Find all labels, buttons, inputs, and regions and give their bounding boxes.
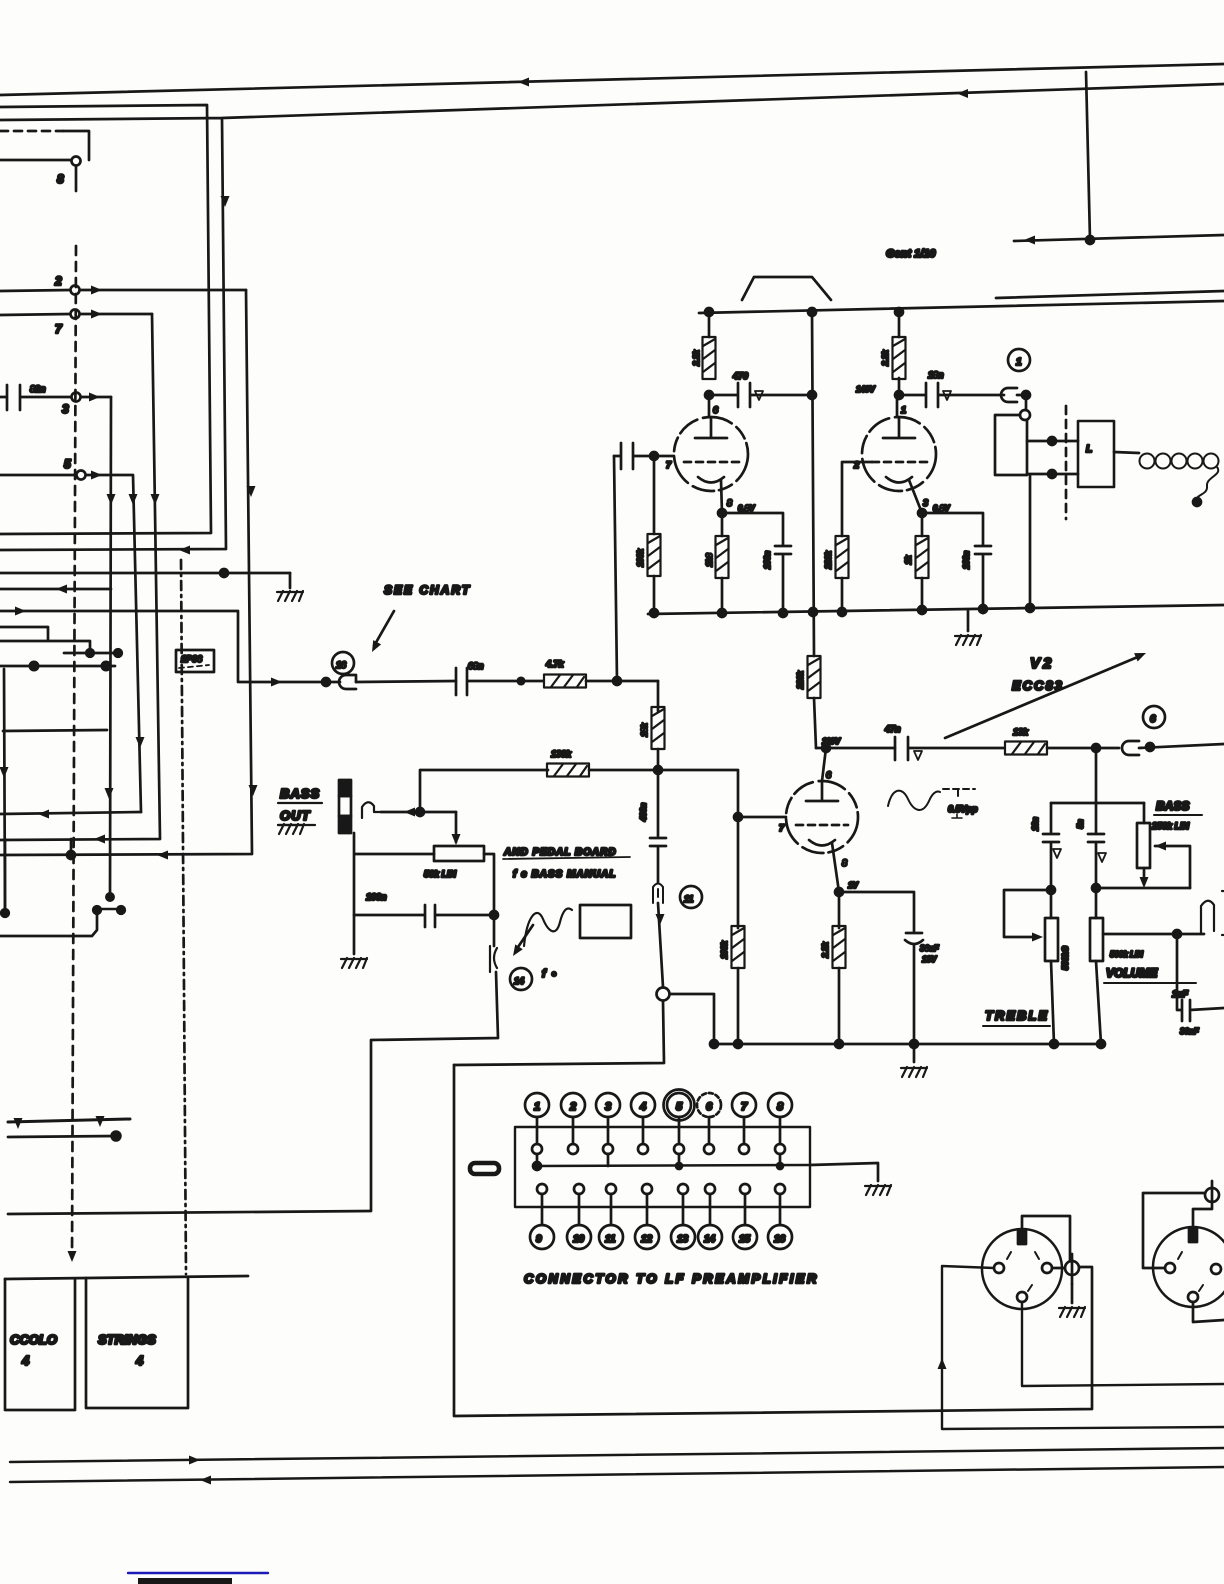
svg-text:12: 12: [641, 1234, 653, 1245]
svg-text:7: 7: [741, 1101, 748, 1113]
svg-text:18n: 18n: [928, 370, 944, 380]
svg-text:AND PEDAL BOARD: AND PEDAL BOARD: [503, 847, 617, 858]
svg-text:13V: 13V: [922, 955, 937, 964]
svg-text:SEE CHART: SEE CHART: [384, 583, 471, 597]
svg-text:100k: 100k: [636, 549, 645, 567]
svg-text:140V: 140V: [856, 385, 875, 394]
svg-text:36uF: 36uF: [920, 944, 940, 953]
svg-text:6: 6: [706, 1101, 713, 1113]
svg-text:BASS: BASS: [280, 786, 320, 801]
svg-text:8: 8: [842, 858, 847, 868]
svg-text:BASS: BASS: [1156, 799, 1189, 813]
svg-text:TREBLE: TREBLE: [985, 1008, 1049, 1023]
svg-text:1V: 1V: [848, 881, 858, 890]
svg-text:4: 4: [135, 1353, 144, 1368]
svg-text:13: 13: [677, 1234, 689, 1245]
svg-text:430n: 430n: [639, 803, 648, 822]
svg-text:6: 6: [1150, 714, 1156, 725]
svg-text:f c BASS MANUAL: f c BASS MANUAL: [513, 869, 616, 880]
svg-text:8: 8: [777, 1101, 784, 1113]
svg-text:7: 7: [55, 322, 63, 336]
svg-text:VOLUME: VOLUME: [1106, 966, 1158, 980]
svg-text:1P06: 1P06: [181, 654, 203, 664]
svg-text:220k: 220k: [824, 551, 833, 570]
svg-text:2.2k: 2.2k: [881, 350, 890, 367]
svg-text:1: 1: [1016, 357, 1022, 368]
svg-text:220k: 220k: [796, 671, 805, 690]
svg-text:4: 4: [639, 1101, 646, 1113]
svg-text:50k LIN: 50k LIN: [424, 869, 457, 879]
svg-text:8: 8: [57, 172, 64, 186]
svg-text:2: 2: [569, 1101, 576, 1113]
svg-text:STRINGS: STRINGS: [98, 1332, 156, 1347]
svg-text:3: 3: [923, 498, 928, 508]
svg-text:18k: 18k: [640, 723, 649, 737]
svg-text:30nF: 30nF: [1180, 1027, 1200, 1036]
svg-text:1: 1: [534, 1101, 540, 1113]
svg-text:CONNECTOR TO LF PREAMPLIFIER: CONNECTOR TO LF PREAMPLIFIER: [524, 1271, 819, 1286]
svg-text:14: 14: [514, 976, 524, 986]
svg-text:1uF: 1uF: [1172, 989, 1189, 999]
svg-text:L: L: [1086, 444, 1092, 455]
svg-text:7: 7: [779, 823, 785, 833]
svg-text:500kG: 500kG: [1061, 946, 1070, 970]
svg-text:1k8: 1k8: [705, 553, 714, 567]
svg-text:0.5Vpp: 0.5Vpp: [948, 804, 978, 814]
svg-text:250k LIN: 250k LIN: [1151, 821, 1190, 831]
svg-text:2: 2: [54, 274, 62, 288]
svg-text:5: 5: [676, 1101, 683, 1113]
svg-text:16: 16: [336, 660, 347, 670]
svg-text:16: 16: [774, 1234, 786, 1245]
svg-text:3: 3: [605, 1101, 611, 1113]
svg-text:OUT: OUT: [280, 808, 311, 823]
svg-text:5n: 5n: [1076, 819, 1085, 828]
svg-text:10: 10: [573, 1234, 585, 1245]
svg-text:8: 8: [727, 498, 732, 508]
svg-text:6: 6: [713, 405, 719, 415]
svg-text:13k: 13k: [1013, 727, 1029, 737]
svg-text:f: f: [542, 968, 547, 980]
svg-text:11: 11: [684, 894, 693, 904]
svg-text:100n: 100n: [366, 892, 387, 902]
svg-text:100k: 100k: [720, 941, 729, 959]
svg-text:4: 4: [21, 1353, 30, 1368]
svg-text:100n: 100n: [763, 551, 772, 569]
svg-text:1k: 1k: [904, 555, 913, 564]
svg-text:10n: 10n: [1031, 817, 1040, 831]
svg-text:1: 1: [901, 405, 906, 415]
svg-text:130k: 130k: [551, 749, 572, 759]
svg-text:82n: 82n: [30, 384, 46, 394]
svg-text:4.7k: 4.7k: [545, 659, 565, 669]
svg-text:Gent 1/10: Gent 1/10: [886, 248, 936, 260]
svg-text:5: 5: [64, 457, 71, 471]
svg-text:14: 14: [704, 1234, 716, 1245]
svg-text:0.8V: 0.8V: [738, 504, 755, 513]
svg-text:V2: V2: [1030, 655, 1054, 672]
svg-text:470: 470: [732, 371, 748, 381]
svg-text:6: 6: [826, 770, 832, 780]
svg-text:3: 3: [62, 402, 69, 416]
svg-text:0.8V: 0.8V: [933, 504, 950, 513]
svg-text:47n: 47n: [884, 724, 901, 734]
svg-text:15: 15: [739, 1234, 751, 1245]
svg-text:9: 9: [536, 1234, 542, 1245]
svg-text:CCOLO: CCOLO: [10, 1332, 57, 1347]
svg-text:11: 11: [605, 1234, 616, 1245]
svg-text:500k LIN: 500k LIN: [1110, 950, 1143, 959]
svg-text:2.2k: 2.2k: [692, 350, 701, 367]
svg-text:2.2k: 2.2k: [821, 942, 830, 959]
svg-text:100n: 100n: [962, 551, 971, 569]
svg-text:7: 7: [666, 460, 672, 470]
svg-text:68n: 68n: [468, 661, 484, 671]
